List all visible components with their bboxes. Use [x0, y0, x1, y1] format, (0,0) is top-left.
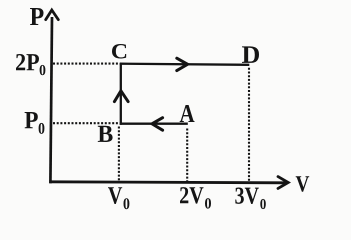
label P0 subscript: [39, 123, 45, 134]
dotted line at V0 below B: [118, 127, 120, 182]
y-axis arrowhead: [46, 10, 59, 20]
label V0 subscript: [124, 198, 130, 209]
label 2P0 subscript: [40, 65, 46, 75]
point label B: [98, 126, 113, 142]
arrow on BC pointing up: [114, 91, 128, 102]
axis label V: [296, 176, 310, 191]
arrow on CD pointing right: [177, 58, 188, 70]
dotted line at 2P0 level (y-axis to C): [53, 63, 119, 65]
process line B to C (isochor at V0): [120, 63, 122, 125]
label 2P0 main: [16, 54, 39, 70]
label 2V0 subscript: [205, 198, 211, 209]
dotted line at 2V0 below A: [186, 129, 188, 182]
point label C: [112, 44, 126, 59]
arrow on AB pointing left: [152, 118, 163, 131]
dotted line at 3V0 below D: [248, 68, 250, 182]
point label D: [242, 46, 259, 63]
y-axis line (P axis): [50, 17, 52, 183]
label 3V0 subscript: [260, 199, 266, 209]
process line C to D (isobar at 2P0): [120, 64, 250, 65]
label 2V0 main: [180, 187, 204, 204]
point label A: [180, 105, 195, 122]
x-axis line (V axis): [49, 182, 286, 183]
dotted line at P0 level (y-axis to B): [53, 122, 118, 124]
label P0 main: [25, 112, 38, 128]
axis label P: [30, 8, 44, 25]
process line A to B (isobar at P0): [120, 123, 188, 125]
label 3V0 main: [235, 188, 258, 205]
label V0 main: [108, 187, 122, 204]
x-axis arrowhead: [278, 177, 288, 189]
